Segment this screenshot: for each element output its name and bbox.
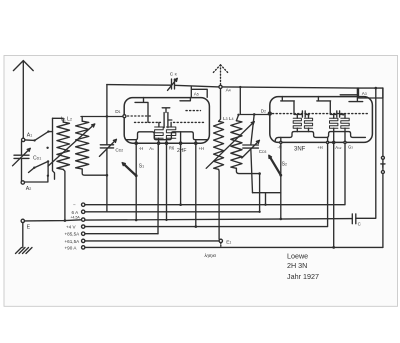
resistor comb U2 g1 right	[304, 115, 312, 129]
tube U2 anode 2	[317, 97, 337, 115]
node junction CD3 tap	[253, 113, 256, 116]
capacitor CD1 (variable antenna cap)	[13, 142, 42, 182]
svg-text:R6: R6	[169, 145, 175, 150]
tube U1 pin A1	[149, 138, 159, 151]
wire L4 bottom lead	[236, 168, 259, 173]
node grid D1 entry	[123, 115, 126, 118]
svg-text:6 A: 6 A	[72, 210, 80, 215]
capacitor internal U2 first	[302, 111, 308, 117]
svg-text:-H: -H	[278, 144, 282, 149]
tube U1 pin a (2HF)	[180, 132, 182, 144]
resistor comb U2 g2 left	[330, 115, 338, 128]
tube U1 anode 2	[180, 98, 190, 101]
wire A3 box to phones	[382, 88, 384, 156]
terminal battery tap 7	[82, 246, 85, 249]
label box A5	[191, 87, 207, 97]
tube U2 filament tray	[275, 132, 365, 142]
capacitor internal U1	[162, 108, 172, 128]
terminal E	[21, 219, 31, 230]
wire phones down to rail7	[382, 174, 384, 248]
wire rail7 (+90A bottom rail)	[85, 246, 383, 248]
tube U1 grid 1 dotted	[128, 115, 152, 117]
tube U2 pin -H	[278, 137, 282, 149]
wire A3 junction down to capacitor C	[356, 88, 376, 218]
tube U2 grid dotted	[273, 113, 368, 115]
inductor L3	[214, 121, 224, 169]
node R6 on rail3	[165, 219, 167, 221]
resistor comb U1 right	[166, 122, 175, 138]
svg-text:Jahr 1927: Jahr 1927	[287, 272, 319, 281]
switch S2	[269, 155, 287, 176]
scan background panel	[4, 56, 398, 307]
capacitor internal U2 second	[337, 111, 343, 117]
wire top bus A4 to A3 box	[222, 87, 383, 88]
node rail2 end	[258, 211, 260, 213]
node junction CD2/L2 bottom	[106, 174, 109, 177]
svg-text:3NF: 3NF	[294, 147, 306, 153]
wire L2 top lead to grid D1	[81, 117, 83, 122]
ground symbol	[16, 223, 33, 254]
wire rail6 (+61,5A) to terminal E1	[85, 240, 219, 242]
terminal phone upper	[381, 156, 384, 159]
tube U2 pin A12	[333, 132, 342, 150]
node L4 bottom junction	[258, 172, 261, 175]
wire A4 down to L3	[219, 89, 221, 122]
wire CD3 bottom to S2 pivot	[253, 192, 281, 194]
terminal battery tap 5	[82, 232, 85, 235]
capacitor CK (variable coupling cap)	[168, 78, 178, 90]
tube U1 anode 1	[135, 98, 148, 123]
tube U1 pin -H	[135, 140, 143, 151]
wire pin -H2 down to rail3	[280, 142, 282, 219]
tube U2 pin G3	[344, 132, 353, 150]
wire E to terminal strip	[25, 220, 82, 221]
svg-text:A12: A12	[335, 145, 341, 150]
svg-text:ληℓηια: ληℓηια	[204, 253, 217, 258]
svg-text:+4 V: +4 V	[66, 225, 77, 230]
node switch contact d4	[47, 160, 49, 162]
wire pin a down to rail1	[180, 143, 182, 205]
wire rail5 (+85,5A)	[85, 233, 158, 235]
node junction D1/CD2	[106, 115, 109, 118]
wire A2 to switch	[25, 176, 48, 182]
svg-text:+H: +H	[317, 145, 322, 150]
node -H2 on rail3	[280, 218, 283, 221]
wire L2 bottom lead	[82, 169, 107, 175]
tube U1 filament tray	[126, 132, 208, 140]
wire rail4 (+4V) with riser to pin +H2	[85, 142, 328, 226]
node switch contact d6	[47, 175, 49, 177]
wire grid-leak stub to rail1	[265, 193, 267, 205]
node pin a on rail1	[179, 203, 182, 206]
svg-text:A3: A3	[362, 91, 367, 96]
coupling arrow L3-L4 (variometer)	[206, 122, 254, 169]
terminal E1	[219, 239, 231, 245]
svg-text:A1: A1	[149, 146, 154, 151]
svg-text:A5: A5	[194, 92, 199, 97]
terminal battery tap 4	[82, 225, 85, 228]
tube U1 grid 2b dotted	[186, 110, 201, 112]
wire pin R6 down to rail3	[166, 143, 168, 220]
wire top bus CK to A4	[175, 85, 219, 87]
wire comb stubs to tray U2	[297, 128, 345, 131]
switch S1	[122, 163, 144, 178]
node A4 (antenna tap)	[219, 85, 231, 93]
svg-text:+4,5A: +4,5A	[71, 215, 81, 219]
terminal battery tap 6	[82, 239, 85, 242]
antenna symbol (main aerial)	[13, 61, 33, 139]
wire E1 dashed stub	[220, 243, 222, 247]
node stub on rail1	[264, 204, 266, 206]
wire between phone terminals	[382, 159, 384, 170]
wire L4 branch down to rail2 end	[259, 174, 261, 212]
node internal U2 first	[307, 113, 309, 115]
wire L4 top lead	[236, 115, 238, 121]
node grid D2 entry	[268, 112, 271, 115]
resistor comb U1 left	[155, 122, 164, 138]
tube U2 anode 1	[281, 97, 303, 115]
svg-text:+85,5A: +85,5A	[65, 232, 81, 237]
wire grid D1 from L2	[81, 116, 123, 118]
wire L1 top lead	[53, 118, 64, 122]
wire pin A1 down to rail5	[157, 143, 159, 234]
terminal A1	[22, 133, 33, 142]
svg-text:2HF: 2HF	[177, 148, 186, 154]
node +H on rail4	[195, 225, 198, 228]
label box A3	[359, 88, 383, 98]
node switch contact d5	[33, 167, 35, 169]
svg-text:+90 A: +90 A	[65, 245, 78, 250]
svg-text:Loewe: Loewe	[287, 251, 308, 260]
svg-text:CD3: CD3	[259, 149, 267, 154]
node switch contact d2	[47, 130, 49, 132]
svg-text:+61,5A: +61,5A	[65, 239, 81, 244]
svg-text:E: E	[27, 224, 31, 230]
svg-text:-H: -H	[139, 146, 143, 151]
node A3 box junction	[375, 87, 378, 90]
switch blade lower (wave switch)	[29, 161, 49, 175]
capacitor C (output blocking)	[352, 214, 360, 227]
wire coil-side vertical	[53, 118, 55, 179]
terminal battery tap 3	[82, 218, 85, 221]
wire rail1 (minus) with riser to pin G3	[85, 142, 345, 204]
terminal battery tap 1	[82, 203, 85, 206]
wire top bus left of CK	[107, 84, 172, 87]
wire pin -H down to rail3	[135, 143, 137, 220]
node -H on rail3	[135, 219, 138, 222]
node A12 on rail7	[332, 246, 335, 249]
inductor L4	[231, 121, 242, 169]
wire rail3 (+4,5A)	[85, 219, 352, 221]
terminal phone lower	[381, 171, 384, 174]
node switch contact d1	[33, 139, 35, 141]
node L4 top junction	[237, 114, 239, 116]
svg-text:−: −	[73, 203, 76, 208]
wire pin A12 down to rail7	[333, 142, 335, 247]
tube U2 anode 3	[340, 88, 363, 102]
terminal battery tap 2	[82, 210, 85, 213]
inductor L2 (secondary coil)	[76, 121, 89, 169]
resistor comb U2 g2 right	[341, 115, 349, 129]
wire L3 bottom to E1	[218, 169, 221, 239]
svg-text:G3: G3	[348, 144, 353, 149]
antenna symbol dotted (alternate aerial)	[213, 65, 228, 85]
wire A4 branch down to grid D2	[240, 87, 268, 114]
tube U1 pin +H	[195, 140, 204, 151]
tube U2 envelope (Loewe 3NF)	[270, 97, 373, 143]
wire L1 bottom to E rail	[63, 169, 65, 220]
tube U1 pin R6	[165, 138, 175, 150]
resistor comb U2 g1 left	[293, 115, 301, 128]
wire CD2 branch to rail2	[106, 175, 108, 212]
tube U1 envelope (Loewe 2HF)	[124, 98, 209, 144]
wire A1 to switch contact	[25, 139, 35, 142]
svg-text:C: C	[358, 221, 361, 226]
tube U2 pin +H	[317, 137, 329, 149]
svg-text:+H: +H	[199, 146, 204, 151]
wire pin +H down to rail4	[195, 143, 197, 226]
capacitor CD3 (variable)	[242, 114, 267, 192]
terminal A2	[21, 181, 31, 192]
tube U1 grid 2 dotted	[135, 121, 204, 123]
label T phones	[381, 164, 385, 167]
node junction top bus	[239, 86, 241, 88]
node internal U2 second	[342, 113, 344, 115]
svg-text:2H 3N: 2H 3N	[287, 261, 307, 270]
switch blade upper (wave switch)	[35, 132, 53, 141]
coupling arrow L1-L2 (variometer)	[48, 124, 95, 166]
svg-text:D2: D2	[261, 108, 266, 113]
node E wire junction	[64, 219, 67, 222]
node switch contact d3	[46, 147, 48, 149]
capacitor CD2 (variable)	[99, 85, 123, 176]
wire rail2 (6A)	[85, 211, 260, 213]
inductor L1 (primary coil)	[57, 122, 70, 169]
